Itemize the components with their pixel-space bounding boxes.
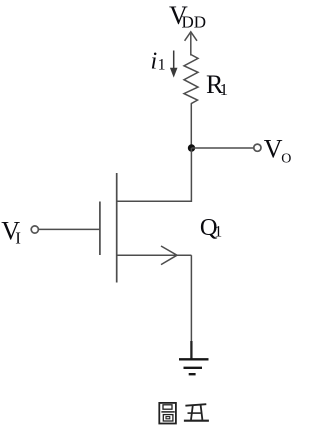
svg-text:1: 1 [214,223,222,240]
wire drain to output node [117,148,191,201]
label i1 current [151,49,166,75]
label R1 [206,70,228,99]
channel bar of Q1 [116,173,118,283]
svg-text:V: V [264,135,283,164]
svg-text:O: O [281,152,291,167]
svg-text:1: 1 [158,57,166,74]
svg-text:I: I [15,229,21,248]
wire output node to VO terminal [192,147,254,149]
caption character WU (five) [184,404,209,421]
ground symbol [179,359,209,374]
svg-text:1: 1 [220,80,229,99]
label VI [1,216,21,247]
gate bar of Q1 [99,202,101,256]
junction output node [188,144,195,151]
label VO [264,135,292,167]
terminal VO [254,144,261,151]
resistor R1 [184,55,198,104]
net VDD label [169,1,206,31]
terminal VI [31,226,38,233]
source lead of Q1 [117,254,192,256]
wire source to ground [190,255,192,358]
transistor Q1 [100,173,191,283]
current direction arrow i1 (down, filled) [171,51,177,77]
wire VDD supply arrow (up) [185,32,197,56]
label Q1 [200,214,222,241]
source arrow of Q1 [161,246,177,265]
caption character TU (figure) [159,403,176,424]
wire resistor bottom to output node [190,104,192,148]
wire VI terminal to gate [39,228,100,230]
svg-text:DD: DD [182,13,207,32]
svg-text:i: i [151,49,158,75]
